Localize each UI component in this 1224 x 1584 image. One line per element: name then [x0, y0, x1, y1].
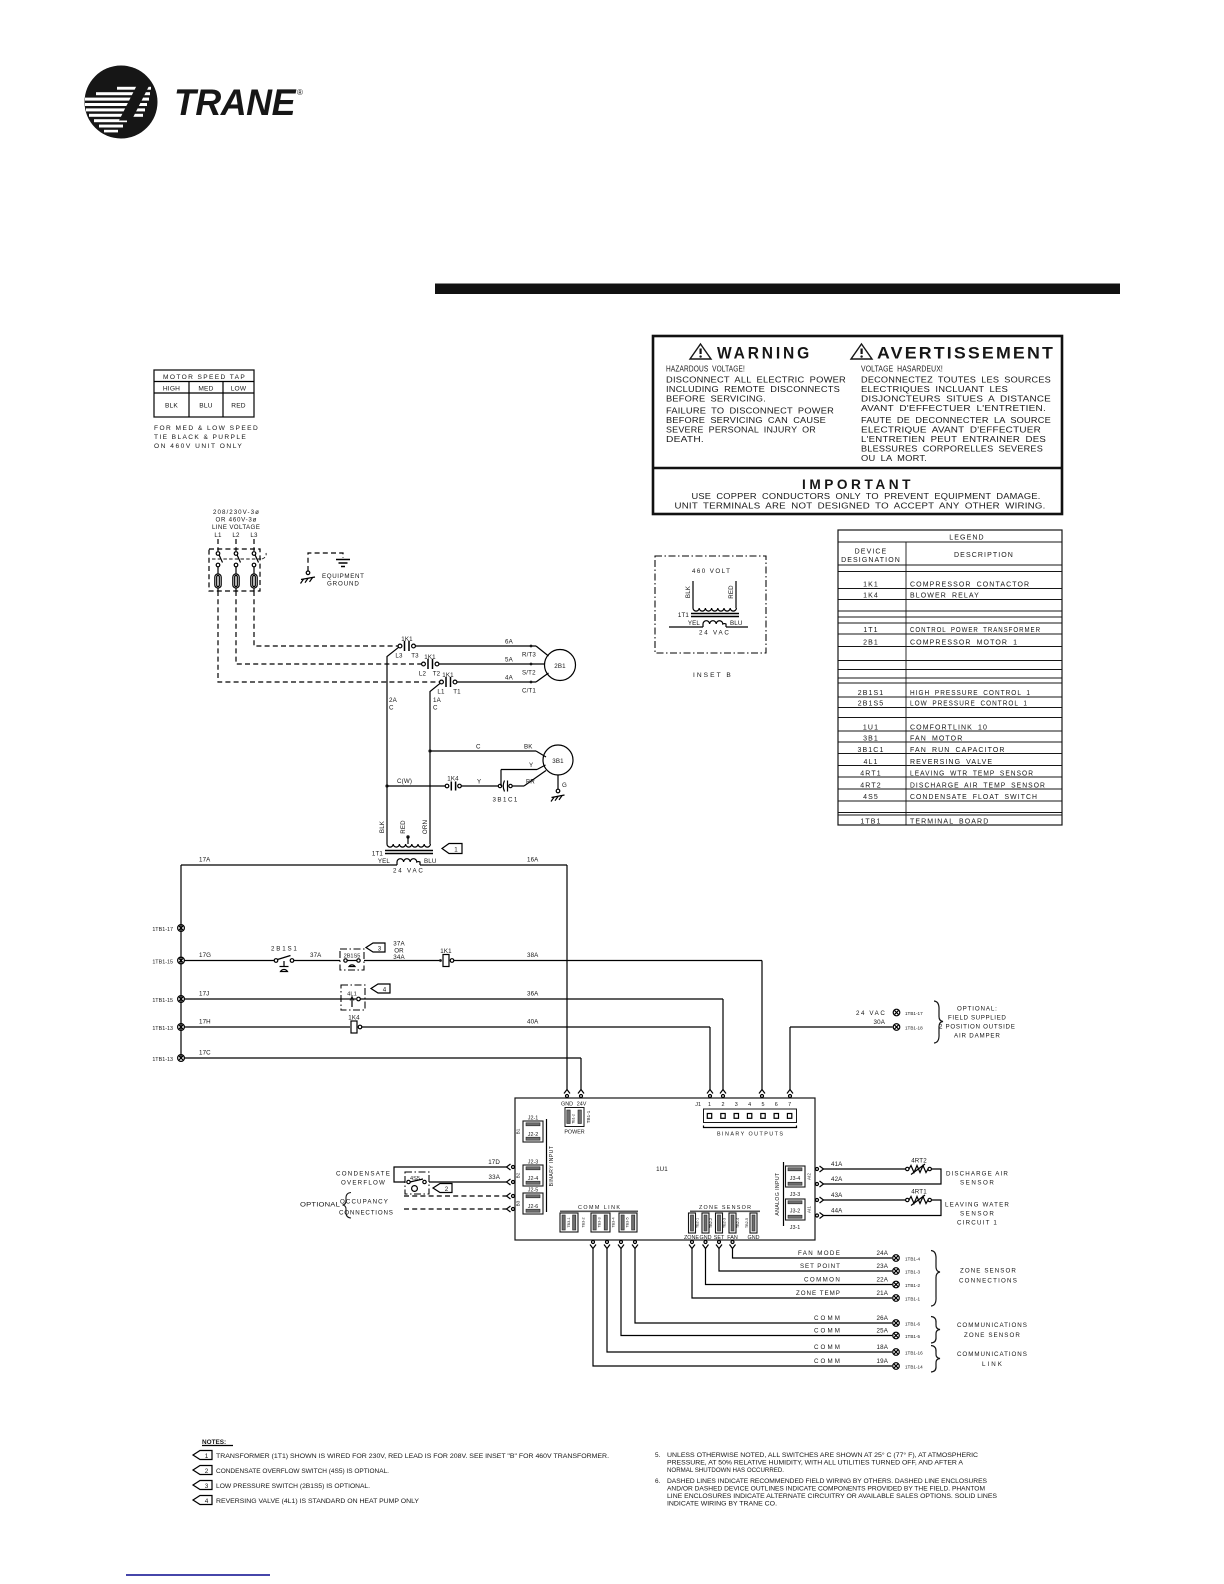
terminal 1TB1-6: [893, 1320, 921, 1327]
svg-text:RED: RED: [231, 403, 246, 410]
svg-text:TB3-4: TB3-4: [612, 1217, 616, 1227]
svg-text:17C: 17C: [199, 1050, 211, 1057]
binary outputs connector: [704, 1109, 797, 1138]
svg-text:1TB1-4: 1TB1-4: [905, 1257, 921, 1262]
wire 2A tap from L3: [387, 647, 399, 844]
zone sensor connections label: [959, 1268, 1017, 1285]
wire 43A: [824, 1192, 906, 1200]
svg-text:G: G: [562, 782, 567, 789]
svg-text:1K1: 1K1: [401, 636, 413, 643]
wire G fan ground: [551, 775, 567, 802]
svg-text:19A: 19A: [877, 1358, 889, 1365]
left chevron 17D: [507, 1164, 515, 1170]
svg-text:COMPRESSOR MOTOR 1: COMPRESSOR MOTOR 1: [910, 640, 1018, 647]
svg-text:3B1: 3B1: [552, 758, 564, 765]
entry chevron BO2: [720, 1090, 726, 1098]
svg-text:LEAVING WTR TEMP SENSOR: LEAVING WTR TEMP SENSOR: [910, 771, 1034, 778]
svg-text:HIGH: HIGH: [163, 386, 180, 393]
svg-text:BLOWER RELAY: BLOWER RELAY: [910, 593, 980, 600]
motor speed tap table: [154, 370, 254, 417]
svg-text:1U1: 1U1: [863, 725, 879, 732]
svg-text:1: 1: [454, 847, 458, 854]
terminal 1TB1-13 (17C): [152, 1055, 184, 1063]
svg-text:DISJONCTEURS SITUES A DISTANCE: DISJONCTEURS SITUES A DISTANCE: [861, 394, 1051, 404]
terminal 1TB1-15 (17J): [152, 996, 184, 1004]
svg-text:B1: B1: [516, 1128, 521, 1134]
svg-text:INCLUDING REMOTE DISCONNECTS: INCLUDING REMOTE DISCONNECTS: [666, 384, 840, 394]
svg-text:BLU: BLU: [730, 620, 743, 627]
svg-text:4: 4: [748, 1102, 751, 1108]
wire comm 19A: [593, 1249, 892, 1367]
svg-text:1TB1-1: 1TB1-1: [905, 1297, 921, 1302]
wire 30A damper: [790, 1019, 893, 1090]
terminal 1TB1-2: [893, 1281, 921, 1288]
wire 4A: [457, 673, 549, 695]
entry chevron BO7: [787, 1090, 793, 1098]
svg-text:UNLESS OTHERWISE NOTED, ALL SW: UNLESS OTHERWISE NOTED, ALL SWITCHES ARE…: [667, 1451, 978, 1459]
svg-text:L3: L3: [250, 532, 258, 539]
svg-text:INSET B: INSET B: [693, 672, 731, 679]
svg-text:ZONE SENSOR: ZONE SENSOR: [699, 1205, 751, 1211]
svg-text:FIELD SUPPLIED: FIELD SUPPLIED: [948, 1015, 1006, 1022]
svg-text:AI2: AI2: [807, 1173, 812, 1180]
svg-text:CONDENSATE FLOAT SWITCH: CONDENSATE FLOAT SWITCH: [910, 794, 1038, 801]
wire 17C: [184, 1050, 581, 1090]
legend table: [838, 530, 1062, 826]
zone sensor connector group: [684, 1205, 760, 1241]
entry chevron BO1: [707, 1090, 713, 1098]
svg-text:30A: 30A: [874, 1019, 886, 1026]
svg-text:DEATH.: DEATH.: [666, 434, 704, 444]
low pressure switch 2B1S5 phantom: [340, 949, 364, 970]
svg-text:1TB1-3: 1TB1-3: [905, 1270, 921, 1275]
svg-text:TB1-2: TB1-2: [572, 1114, 576, 1124]
svg-text:IMPORTANT: IMPORTANT: [802, 477, 914, 492]
equipment ground dashed run: [308, 553, 343, 571]
terminal 1TB1-14: [893, 1363, 923, 1370]
svg-text:1TB1-13: 1TB1-13: [152, 1057, 173, 1063]
svg-text:1TB1-14: 1TB1-14: [905, 1365, 923, 1370]
wire L2 dashed to contact: [236, 591, 422, 664]
left chevron occ1: [507, 1193, 515, 1199]
24VAC left bus: [180, 865, 182, 1058]
svg-text:26A: 26A: [877, 1315, 889, 1322]
svg-text:T3: T3: [411, 653, 419, 660]
svg-text:GND: GND: [561, 1102, 573, 1108]
wire occupancy 1 dashed: [404, 1195, 507, 1197]
svg-text:J2-6: J2-6: [528, 1204, 539, 1210]
svg-text:Y: Y: [529, 762, 533, 769]
svg-text:2B1: 2B1: [863, 640, 879, 647]
svg-text:ON 460V UNIT ONLY: ON 460V UNIT ONLY: [154, 443, 242, 450]
svg-text:7: 7: [788, 1102, 791, 1108]
svg-text:B3: B3: [516, 1200, 521, 1206]
svg-text:4L1: 4L1: [864, 759, 879, 766]
svg-text:3: 3: [378, 946, 382, 953]
svg-text:24V: 24V: [577, 1102, 587, 1108]
svg-text:41A: 41A: [831, 1161, 843, 1168]
svg-text:24 VAC: 24 VAC: [856, 1010, 885, 1017]
svg-text:DEVICE: DEVICE: [855, 549, 888, 556]
svg-text:DISCHARGE AIR: DISCHARGE AIR: [946, 1171, 1008, 1178]
svg-text:POWER: POWER: [564, 1130, 584, 1136]
svg-text:OU LA MORT.: OU LA MORT.: [861, 453, 927, 463]
communications link brace: [931, 1346, 940, 1373]
svg-text:2B1: 2B1: [554, 663, 566, 670]
condensate overflow label: [336, 1171, 390, 1187]
wire L1 dashed to contact: [218, 591, 440, 682]
svg-text:FOR MED & LOW SPEED: FOR MED & LOW SPEED: [154, 425, 258, 432]
svg-text:OPTIONAL:: OPTIONAL:: [957, 1006, 997, 1013]
svg-text:FAN MOTOR: FAN MOTOR: [910, 736, 963, 743]
exit chevron fan: [730, 1241, 736, 1249]
svg-text:TB2-1: TB2-1: [696, 1218, 700, 1228]
svg-text:460 VOLT: 460 VOLT: [692, 568, 730, 575]
warning / avertissement label box: [653, 336, 1062, 514]
svg-text:COMM: COMM: [814, 1358, 840, 1365]
svg-text:DESIGNATION: DESIGNATION: [841, 557, 901, 564]
svg-text:1TB1: 1TB1: [860, 819, 881, 826]
svg-text:GND: GND: [748, 1235, 760, 1241]
leaving water sensor label: [945, 1202, 1009, 1227]
svg-text:LINK: LINK: [982, 1361, 1003, 1368]
svg-text:Y: Y: [477, 779, 481, 786]
wire comm 18A: [607, 1249, 892, 1353]
svg-text:J3-1: J3-1: [790, 1225, 801, 1231]
svg-text:5.: 5.: [655, 1452, 661, 1459]
thermistor 4RT2: [906, 1158, 932, 1175]
wire L3 drop: [253, 539, 255, 551]
discharge air sensor label: [946, 1171, 1008, 1187]
svg-text:TB3-1: TB3-1: [567, 1217, 571, 1227]
wire occupancy 2 dashed: [404, 1208, 507, 1210]
header black bar: [435, 284, 1120, 295]
svg-text:B2: B2: [516, 1172, 521, 1178]
note 6: [655, 1478, 997, 1508]
svg-text:TB2-4: TB2-4: [736, 1218, 740, 1228]
svg-text:4RT2: 4RT2: [911, 1158, 927, 1165]
contactor contact 1K1 L1-T1: [437, 672, 461, 696]
left chevron 33A: [507, 1179, 515, 1185]
svg-text:BLESSURES CORPORELLES SEVERES: BLESSURES CORPORELLES SEVERES: [861, 444, 1043, 454]
svg-text:C: C: [389, 705, 394, 712]
terminal 1TB1-1: [893, 1295, 921, 1302]
svg-text:TERMINAL BOARD: TERMINAL BOARD: [910, 819, 989, 826]
svg-text:COMM: COMM: [814, 1315, 840, 1322]
svg-text:TB2-2: TB2-2: [709, 1218, 713, 1228]
controller 1U1 outline: [515, 1098, 815, 1240]
svg-text:17A: 17A: [199, 857, 211, 864]
note flag 2 row: [193, 1466, 389, 1476]
binary input block B1: [516, 1116, 544, 1143]
svg-text:25A: 25A: [877, 1328, 889, 1335]
svg-text:1T1: 1T1: [863, 627, 878, 634]
svg-text:DISCHARGE AIR TEMP SENSOR: DISCHARGE AIR TEMP SENSOR: [910, 783, 1046, 790]
svg-text:DISCONNECT ALL ELECTRIC POWER: DISCONNECT ALL ELECTRIC POWER: [666, 375, 846, 385]
contactor coil 1K1: [439, 948, 454, 967]
svg-text:1U1: 1U1: [656, 1166, 668, 1173]
svg-text:HAZARDOUS VOLTAGE!: HAZARDOUS VOLTAGE!: [666, 364, 745, 374]
svg-text:COMMUNICATIONS: COMMUNICATIONS: [957, 1322, 1027, 1329]
svg-text:TB3-2: TB3-2: [582, 1217, 586, 1227]
svg-text:SENSOR: SENSOR: [960, 1211, 994, 1218]
svg-text:3: 3: [735, 1102, 738, 1108]
wire C to fan: [430, 744, 546, 758]
svg-text:L'ENTRETIEN PEUT ENTRAINER DES: L'ENTRETIEN PEUT ENTRAINER DES: [861, 434, 1046, 444]
svg-text:INDICATE WIRING BY TRANE CO.: INDICATE WIRING BY TRANE CO.: [667, 1501, 777, 1508]
svg-text:RED: RED: [400, 820, 407, 834]
svg-text:COMM: COMM: [814, 1344, 840, 1351]
communications zone sensor label: [957, 1322, 1027, 1339]
entry chevron BO5: [759, 1090, 765, 1098]
svg-text:ELECTRIQUE AVANT D'EFFECTUER: ELECTRIQUE AVANT D'EFFECTUER: [861, 425, 1041, 435]
svg-text:WARNING: WARNING: [717, 345, 812, 363]
svg-text:C: C: [433, 705, 438, 712]
wire fan mode 24A: [733, 1249, 893, 1259]
svg-text:6: 6: [775, 1102, 778, 1108]
note flag 1 row: [193, 1451, 609, 1461]
svg-text:BLK: BLK: [685, 585, 692, 598]
svg-text:J2-4: J2-4: [528, 1176, 539, 1182]
ground symbol: [336, 560, 350, 567]
reversing valve solenoid 4L1 phantom: [341, 985, 365, 1010]
svg-text:1T1: 1T1: [372, 851, 384, 858]
svg-text:24 VAC: 24 VAC: [699, 630, 729, 637]
relay contact 1K4: [445, 776, 461, 791]
svg-text:TB3-5: TB3-5: [626, 1217, 630, 1227]
terminal 1TB1-4: [893, 1255, 921, 1262]
wire 6A: [415, 639, 548, 659]
svg-text:ANALOG INPUT: ANALOG INPUT: [775, 1172, 781, 1215]
warning triangle right: [851, 344, 872, 359]
svg-text:LOW: LOW: [231, 386, 247, 393]
zone sensor connections brace: [931, 1251, 940, 1307]
svg-text:MED: MED: [198, 386, 213, 393]
svg-text:2B1S1: 2B1S1: [858, 690, 885, 697]
svg-text:FAN RUN CAPACITOR: FAN RUN CAPACITOR: [910, 747, 1006, 754]
contactor contact 1K1 L3-T3: [395, 636, 419, 660]
svg-text:1K1: 1K1: [442, 672, 454, 679]
occupancy labels: [300, 1193, 393, 1219]
svg-text:J3-2: J3-2: [790, 1209, 801, 1215]
svg-text:2: 2: [205, 1468, 209, 1475]
inset B transformer core: [678, 612, 739, 619]
svg-text:BLK: BLK: [165, 403, 178, 410]
svg-text:24 VAC: 24 VAC: [393, 868, 423, 875]
wire common 22A: [706, 1249, 893, 1285]
speed tap note: [154, 425, 258, 450]
wire 40A: [362, 1019, 710, 1090]
svg-text:J1: J1: [695, 1102, 701, 1108]
svg-text:LINE VOLTAGE: LINE VOLTAGE: [212, 524, 260, 531]
svg-text:ZONE TEMP: ZONE TEMP: [796, 1290, 840, 1297]
pressure switch 2B1S1: [271, 946, 297, 972]
svg-text:2: 2: [722, 1102, 725, 1108]
svg-text:CONNECTIONS: CONNECTIONS: [959, 1278, 1017, 1285]
svg-text:OVERFLOW: OVERFLOW: [341, 1180, 385, 1187]
svg-text:1K4: 1K4: [447, 776, 459, 783]
transformer 1T1 secondary: [378, 858, 437, 875]
svg-text:TB2-5: TB2-5: [745, 1218, 749, 1228]
svg-text:TRANE: TRANE: [174, 82, 297, 123]
svg-text:LEAVING WATER: LEAVING WATER: [945, 1202, 1009, 1209]
svg-text:AI1: AI1: [807, 1206, 812, 1213]
transformer 1T1 leads: [379, 820, 429, 844]
fan motor 3B1: [543, 745, 573, 775]
svg-text:22A: 22A: [877, 1277, 889, 1284]
wire into 1K1 coil: [364, 960, 441, 962]
svg-text:NORMAL SHUTDOWN HAS OCCURRED.: NORMAL SHUTDOWN HAS OCCURRED.: [667, 1467, 784, 1474]
notes heading: [202, 1439, 233, 1446]
svg-text:R/T3: R/T3: [522, 652, 536, 659]
wire 17J: [184, 991, 341, 1000]
svg-text:21A: 21A: [877, 1290, 889, 1297]
wire 16A GND drop: [566, 865, 568, 1090]
svg-text:1TB1-6: 1TB1-6: [905, 1322, 921, 1327]
svg-text:3B1: 3B1: [863, 736, 879, 743]
blower relay coil 1K4: [348, 1015, 362, 1034]
wire L1 drop: [217, 539, 219, 551]
svg-text:FAN MODE: FAN MODE: [798, 1250, 840, 1257]
svg-text:GROUND: GROUND: [327, 581, 359, 588]
svg-text:1TB1-13: 1TB1-13: [152, 1026, 173, 1032]
svg-text:T2: T2: [433, 671, 441, 678]
wire set point 23A: [719, 1249, 892, 1272]
terminal 1TB1-17 damper: [856, 1009, 923, 1017]
Trane logo: [85, 66, 304, 139]
svg-text:43A: 43A: [831, 1192, 843, 1199]
transformer 1T1 primary: [387, 844, 430, 847]
analog input group: [775, 1162, 812, 1231]
binary outputs header J1: [695, 1102, 791, 1108]
svg-text:J3-4: J3-4: [790, 1176, 801, 1182]
svg-text:LOW PRESSURE CONTROL 1: LOW PRESSURE CONTROL 1: [910, 701, 1028, 708]
terminal 1TB1-5: [893, 1332, 921, 1339]
svg-text:SEVERE PERSONAL INJURY OR: SEVERE PERSONAL INJURY OR: [666, 425, 816, 435]
note flag 4 row: [193, 1496, 420, 1506]
svg-text:1: 1: [708, 1102, 711, 1108]
svg-text:L1: L1: [214, 532, 222, 539]
svg-text:T1: T1: [453, 689, 461, 696]
svg-text:1K4: 1K4: [863, 593, 879, 600]
exit chevron comm3: [618, 1241, 624, 1249]
wire Y to fan: [501, 762, 546, 786]
svg-text:LOW PRESSURE SWITCH (2B1S5) IS: LOW PRESSURE SWITCH (2B1S5) IS OPTIONAL.: [216, 1483, 370, 1490]
svg-text:SENSOR: SENSOR: [960, 1180, 994, 1187]
svg-text:BR: BR: [526, 779, 535, 786]
svg-text:1TB1-2: 1TB1-2: [905, 1283, 921, 1288]
exit chevron gnd: [703, 1241, 709, 1249]
svg-text:OPTIONAL: OPTIONAL: [300, 1202, 340, 1209]
svg-text:33A: 33A: [489, 1174, 501, 1181]
wire 17D condensate: [394, 1159, 507, 1182]
svg-text:COMPRESSOR CONTACTOR: COMPRESSOR CONTACTOR: [910, 582, 1030, 589]
note flag 2: [433, 1184, 452, 1194]
inset B transformer primary: [685, 581, 736, 611]
svg-text:DECONNECTEZ TOUTES LES SOURCES: DECONNECTEZ TOUTES LES SOURCES: [861, 375, 1051, 385]
switch linkage dashed: [212, 553, 266, 559]
footer blue link line: [126, 1574, 270, 1576]
svg-text:LINE ENCLOSURES INDICATE ALTER: LINE ENCLOSURES INDICATE ALTERNATE CIRCU…: [667, 1493, 997, 1500]
disconnect switch pole L3: [251, 552, 259, 591]
svg-text:4RT1: 4RT1: [860, 771, 881, 778]
svg-text:1TB1-18: 1TB1-18: [905, 1026, 923, 1031]
svg-text:CONNECTIONS: CONNECTIONS: [339, 1210, 393, 1217]
damper option brace: [934, 1001, 943, 1043]
power labels: [561, 1102, 587, 1108]
label 37A OR 34A: [393, 941, 405, 962]
svg-text:37A: 37A: [310, 952, 322, 959]
svg-text:EQUIPMENT: EQUIPMENT: [322, 573, 364, 580]
svg-text:24A: 24A: [877, 1250, 889, 1257]
svg-text:UNIT TERMINALS ARE NOT DESIGNE: UNIT TERMINALS ARE NOT DESIGNED TO ACCEP…: [675, 501, 1046, 511]
svg-text:REVERSING VALVE (4L1) IS STAND: REVERSING VALVE (4L1) IS STANDARD ON HEA…: [216, 1498, 420, 1505]
transformer 1T1 core: [372, 851, 433, 858]
wire 17A secondary left: [181, 857, 397, 866]
svg-text:6.: 6.: [655, 1478, 661, 1485]
terminal 1TB1-13 (17H): [152, 1024, 184, 1032]
binary input block B2: [516, 1160, 544, 1187]
svg-text:OR 460V-3ø: OR 460V-3ø: [216, 517, 257, 524]
wire 42A loop: [824, 1169, 942, 1184]
note flag 3: [366, 943, 385, 953]
svg-text:C: C: [476, 744, 481, 751]
svg-text:BEFORE SERVICING.: BEFORE SERVICING.: [666, 394, 766, 404]
svg-text:CONTROL POWER TRANSFORMER: CONTROL POWER TRANSFORMER: [910, 627, 1041, 634]
exit chevron comm4: [632, 1241, 638, 1249]
svg-text:L2: L2: [419, 671, 427, 678]
damper option label: [939, 1006, 1015, 1040]
svg-text:1K1: 1K1: [424, 654, 436, 661]
wire L3 dashed to contact: [254, 591, 398, 646]
svg-text:4A: 4A: [505, 675, 514, 682]
svg-text:BINARY INPUT: BINARY INPUT: [549, 1146, 555, 1187]
note flag 1: [442, 844, 462, 854]
svg-text:L2: L2: [232, 532, 240, 539]
svg-text:1K1: 1K1: [863, 582, 879, 589]
svg-text:1A: 1A: [433, 697, 442, 704]
svg-text:SET POINT: SET POINT: [800, 1263, 840, 1270]
entry chevron GND: [564, 1090, 570, 1098]
note flag 3 row: [193, 1481, 370, 1491]
right chevron 44A: [816, 1213, 824, 1219]
warning triangle left: [690, 344, 711, 359]
svg-text:4RT1: 4RT1: [911, 1189, 927, 1196]
svg-text:208/230V-3ø: 208/230V-3ø: [213, 509, 259, 516]
power connector: [564, 1108, 591, 1136]
field disconnect enclosure: [209, 549, 260, 591]
wire 17H: [184, 1019, 350, 1028]
svg-text:17J: 17J: [199, 991, 209, 998]
terminal 1TB1-18: [893, 1024, 923, 1031]
svg-text:6A: 6A: [505, 639, 514, 646]
svg-text:COMM LINK: COMM LINK: [578, 1205, 620, 1211]
chassis ground: [301, 571, 316, 584]
right chevron 42A: [816, 1181, 824, 1187]
svg-text:BLK: BLK: [379, 820, 386, 833]
svg-text:BEFORE SERVICING CAN CAUSE: BEFORE SERVICING CAN CAUSE: [666, 415, 826, 425]
svg-text:ZONE SENSOR: ZONE SENSOR: [964, 1332, 1020, 1339]
contactor contact 1K1 L2-T2: [419, 654, 441, 678]
svg-text:BK: BK: [524, 744, 533, 751]
svg-text:BLU: BLU: [199, 403, 212, 410]
note flag 4: [371, 984, 390, 994]
svg-text:44A: 44A: [831, 1208, 843, 1215]
svg-text:17H: 17H: [199, 1019, 211, 1026]
wire 5A: [439, 657, 545, 677]
wire 16A secondary right: [420, 857, 567, 866]
svg-text:1TB1-15: 1TB1-15: [152, 960, 173, 966]
